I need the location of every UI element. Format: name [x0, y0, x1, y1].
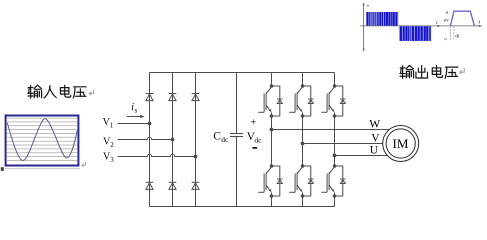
pwm horizontal axis t: [360, 25, 441, 27]
freewheel diode of Q2: [308, 99, 314, 104]
IGBT Q6 (lower, leg 3): [321, 164, 343, 198]
freewheel diode of Q3: [340, 99, 346, 104]
svg-text:dc: dc: [254, 135, 262, 144]
rectifier diode D6: [192, 182, 200, 189]
freewheel diode of Q6: [340, 179, 346, 184]
capacitor Cdc top lead: [236, 73, 238, 134]
junction node V2/leg2: [171, 138, 175, 142]
phase U output wire: [335, 155, 388, 157]
rectifier leg 3 wire: [195, 73, 197, 207]
label: output voltage (shu chu dian ya): [400, 65, 458, 78]
motor IM inner circle: [386, 129, 415, 158]
current arrow i_s: [127, 115, 145, 119]
IGBT Q1 (upper, leg 1): [258, 84, 280, 118]
rectifier diode D5: [169, 182, 177, 189]
inverter leg 1: wire rail to upper IGBT collector: [271, 73, 273, 87]
paragraph return mark after output label: [460, 68, 465, 74]
capacitor Cdc plates: [230, 134, 243, 137]
inverter leg 1: wire lower emitter to bottom rail: [271, 193, 273, 207]
phase V junction node: [301, 142, 305, 146]
label: input voltage (shu ru dian ya): [28, 85, 86, 98]
IGBT Q5 (lower, leg 2): [289, 164, 311, 198]
svg-text:dt: dt: [455, 35, 460, 40]
rectifier diode D2: [169, 94, 177, 101]
bottom DC bus rail: [150, 206, 335, 208]
trapezoid chart axis t: [439, 25, 483, 27]
rectifier leg 2 wire: [172, 73, 174, 207]
rectifier leg 1 wire: [149, 73, 151, 207]
phase W output wire: [272, 129, 390, 131]
svg-text:+: +: [251, 118, 257, 129]
wire from V3 to rectifier leg 3 (hops over legs 1,2): [118, 154, 196, 156]
paragraph return mark after input label: [89, 89, 94, 95]
waveform panel gridlines: [7, 118, 77, 160]
svg-text:C: C: [213, 130, 221, 142]
rectifier diode D1: [146, 94, 154, 101]
trapezoid voltage profile trace: [450, 11, 474, 26]
trapezoid corner mark: [444, 37, 447, 40]
input voltage waveform panel frame: [6, 116, 79, 166]
phase U junction node: [333, 154, 337, 158]
freewheel diode of Q5: [308, 179, 314, 184]
inverter leg 1: wire upper emitter to lower collector: [271, 113, 273, 167]
label - (dc bus polarity): [252, 147, 257, 149]
wire from V2 to rectifier leg 2 (hop over leg 1): [118, 137, 173, 139]
inverter leg 2: wire rail to upper IGBT collector: [302, 73, 304, 87]
motor IM outer circle: [383, 126, 419, 162]
rectifier diode D3: [192, 94, 200, 101]
top DC bus rail: [150, 72, 335, 74]
capacitor Cdc bottom lead: [236, 137, 238, 207]
svg-text:ev: ev: [444, 19, 449, 24]
wire from V1 to rectifier leg 1: [118, 123, 150, 125]
svg-text:W: W: [369, 119, 380, 131]
svg-text:s: s: [135, 107, 138, 115]
inverter leg 3: wire upper emitter to lower collector: [334, 113, 336, 167]
pwm negative half-cycle pulse block: [399, 26, 431, 41]
inverter leg 3: wire lower emitter to bottom rail: [334, 193, 336, 207]
IGBT Q4 (lower, leg 1): [258, 164, 280, 198]
panel corner mark: [1, 167, 4, 171]
rectifier diode D4: [146, 182, 154, 189]
svg-text:V: V: [371, 133, 380, 145]
inverter leg 2: wire lower emitter to bottom rail: [302, 193, 304, 207]
inverter leg 3: wire rail to upper IGBT collector: [334, 73, 336, 87]
paragraph return mark after panel: [82, 162, 86, 167]
freewheel diode of Q1: [277, 99, 283, 104]
svg-text:dc: dc: [221, 135, 229, 144]
junction node V1/leg1: [148, 122, 152, 126]
phase W junction node: [270, 128, 274, 132]
svg-text:U: U: [370, 145, 379, 157]
phase V output wire: [303, 143, 383, 145]
trapezoid dashed guide lines: [450, 26, 454, 39]
input sine wave trace: [7, 119, 77, 161]
panel shadow line: [5, 168, 80, 170]
IGBT Q3 (upper, leg 3): [321, 84, 343, 118]
pwm positive half-cycle pulse block: [366, 12, 398, 26]
pwm vertical axis v: [363, 2, 365, 52]
junction node V3/leg3: [194, 155, 198, 159]
svg-text:IM: IM: [393, 136, 409, 151]
inverter leg 2: wire upper emitter to lower collector: [302, 113, 304, 167]
freewheel diode of Q4: [277, 179, 283, 184]
IGBT Q2 (upper, leg 2): [289, 84, 311, 118]
